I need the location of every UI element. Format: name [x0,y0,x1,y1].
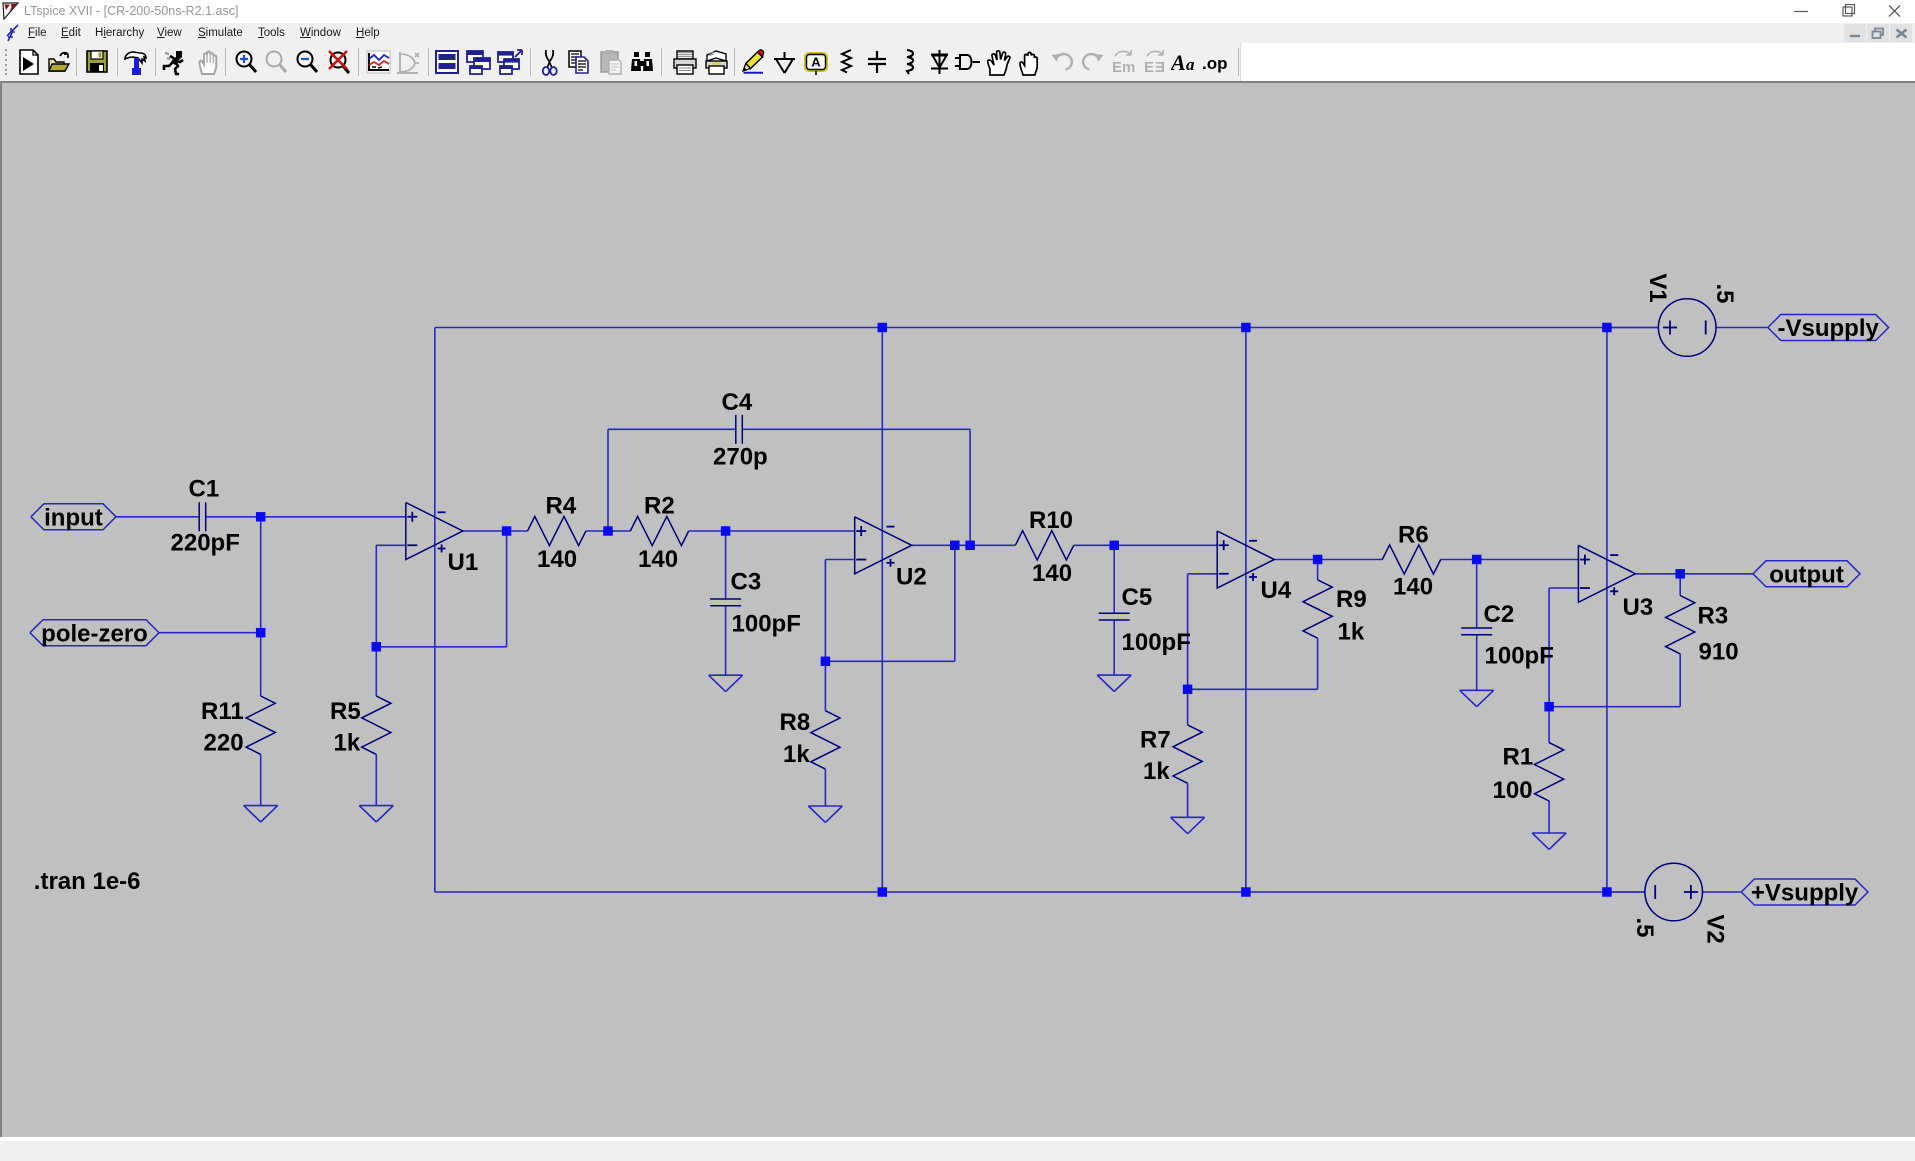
wire U2 power column [881,328,883,893]
resistor R4 [528,493,586,574]
toolbar icon hand1 [986,49,1013,76]
toolbar icon ground [772,49,797,76]
toolbar icon fft [394,49,421,76]
window controls [1786,0,1915,23]
status bar [0,1140,1915,1161]
ground R5 [359,806,393,822]
svg-text:.op: .op [1202,54,1228,73]
svg-text:.tran 1e-6: .tran 1e-6 [34,868,141,895]
svg-text:R3: R3 [1698,603,1729,630]
wire C3 branch [725,531,727,675]
resistor R11 [201,633,275,806]
capacitor C4 [713,389,768,471]
svg-text:output: output [1769,561,1844,588]
toolbar icon undo [1050,49,1074,76]
svg-text:E: E [1112,59,1122,76]
net flag pole-zero [30,620,159,648]
MDI child window controls [1844,23,1915,43]
resistor R3 [1666,574,1739,707]
svg-text:270p: 270p [713,444,768,471]
svg-text:R7: R7 [1140,727,1171,754]
svg-text:R1: R1 [1503,744,1534,771]
svg-text:R6: R6 [1398,522,1429,549]
svg-text:100pF: 100pF [1485,643,1554,670]
toolbar icon pencil [741,49,766,76]
toolbar icon op [1202,49,1230,76]
toolbar icon open [47,49,72,76]
svg-text:V2: V2 [1702,914,1729,943]
toolbar icon hammer [123,49,148,76]
wire V1 leads [1607,327,1768,329]
voltage source V1 [1644,273,1738,356]
wire C1 to U1 noninverting input [206,516,406,518]
resistor R6 [1382,522,1440,601]
wire U3 power column [1606,328,1608,893]
svg-text:140: 140 [537,546,577,573]
toolbar icon save [85,49,109,75]
resistor R5 [330,647,391,806]
svg-text:1k: 1k [1143,758,1170,785]
capacitor C1 [171,476,240,557]
svg-text:A: A [1171,50,1186,75]
wire R2 to U2 noninverting input [689,530,855,532]
toolbar icon preview [703,49,730,76]
ground C3 [709,675,743,691]
toolbar icon capacitor [866,49,888,76]
capacitor C5 [1099,584,1191,656]
resistor R1 [1493,707,1564,833]
capacitor C3 [710,569,801,638]
wire U2 output to R10 [912,544,1016,546]
svg-text:U2: U2 [896,564,927,591]
svg-text:R8: R8 [780,709,811,736]
svg-text:1k: 1k [334,730,361,757]
svg-text:100: 100 [1493,777,1533,804]
capacitor C2 [1461,601,1554,670]
net flag output [1753,561,1860,589]
wire U1 output to R4 [463,530,528,532]
wire pole-zero flag to node A [159,632,261,634]
svg-text:.5: .5 [1711,283,1738,303]
svg-text:100pF: 100pF [732,611,801,638]
svg-text:.5: .5 [1631,917,1658,937]
wire U1 feedback [376,531,506,647]
resistor R7 [1140,689,1202,817]
wire U4 feedback [1188,574,1318,690]
wire U1 power column [434,328,436,893]
toolbar icon paste [599,49,623,76]
resistor R8 [780,661,841,806]
wire bottom +Vsupply rail [435,891,1645,893]
svg-text:910: 910 [1699,639,1739,666]
svg-text:E: E [1144,59,1154,76]
toolbar icon find [629,49,655,76]
wire node A column [260,517,262,633]
wire U3 feedback [1549,588,1680,707]
toolbar icon run [162,49,188,76]
ground C5 [1097,675,1131,691]
toolbar icon zoomout [295,49,320,76]
toolbar icon diode [928,49,951,76]
svg-text:+Vsupply: +Vsupply [1751,880,1859,907]
svg-text:U1: U1 [448,549,479,576]
wire U4 output to R6 [1274,559,1382,561]
wire C4 top branch [608,429,970,545]
svg-text:R11: R11 [201,698,244,725]
toolbar icon label [803,49,829,76]
schematic document icon [5,24,21,42]
toolbar icon new [17,49,41,76]
svg-text:input: input [44,504,103,531]
wire input to C1 [116,516,199,518]
svg-text:A: A [811,55,821,70]
svg-text:140: 140 [638,546,678,573]
voltage source V2 [1631,863,1729,943]
svg-text:R9: R9 [1336,586,1367,613]
resistor R10 [1015,507,1073,587]
toolbar icon zoomin [234,49,259,76]
window title bar [0,0,1915,23]
ground R1 [1532,833,1566,849]
svg-text:140: 140 [1032,560,1072,587]
net flag -Vsupply [1768,315,1889,343]
toolbar icon zoomext [326,49,352,76]
svg-text:220: 220 [204,730,244,757]
net flag +Vsupply [1741,879,1868,907]
toolbar icon text [1171,49,1197,76]
toolbar icon tile [496,49,523,75]
toolbar icon print [672,49,698,76]
svg-text:m: m [1122,59,1135,76]
op-amp U3 [1578,545,1653,621]
svg-text:C1: C1 [189,476,220,503]
toolbar icon mirror [1111,49,1135,76]
wire R4 to R2 [586,530,630,532]
svg-text:R5: R5 [330,698,361,725]
svg-text:220pF: 220pF [171,530,240,557]
wire U3 output to output flag [1635,573,1753,575]
toolbar icon hand2 [1017,49,1041,76]
ground C2 [1460,690,1494,706]
LTspice application logo [2,2,20,20]
wire top -Vsupply rail [435,327,1659,329]
toolbar icon rotate [1143,49,1167,76]
svg-text:E: E [1155,59,1165,76]
svg-text:a: a [1186,55,1195,74]
svg-text:C5: C5 [1122,584,1153,611]
resistor R9 [1303,560,1367,690]
svg-text:V1: V1 [1644,273,1671,302]
svg-text:R4: R4 [546,493,577,520]
svg-text:U3: U3 [1623,594,1654,621]
op-amp U2 [855,517,927,591]
toolbar icon wave [365,49,392,76]
toolbar icon zoomback [264,49,288,76]
svg-text:100pF: 100pF [1122,629,1191,656]
svg-text:pole-zero: pole-zero [41,620,148,647]
toolbar icon halt [196,49,220,76]
wire U4 power column [1245,328,1247,893]
menu bar [0,23,1915,43]
wire junction dots [256,323,1685,897]
net flag input [31,504,116,532]
svg-text:R2: R2 [644,493,675,520]
svg-text:C4: C4 [722,389,753,416]
svg-text:R10: R10 [1029,507,1073,534]
toolbar icon bars [434,49,460,75]
svg-text:1k: 1k [1338,619,1365,646]
wire R6 to U3 noninverting input [1441,559,1579,561]
svg-text:U4: U4 [1261,577,1292,604]
op-amp U4 [1217,531,1292,604]
toolbar icon resistor [837,49,857,76]
svg-text:C3: C3 [731,569,762,596]
ground R8 [808,806,842,822]
svg-text:-Vsupply: -Vsupply [1778,315,1880,342]
ground R7 [1171,817,1205,833]
op-amp U1 [406,503,478,577]
svg-text:C2: C2 [1484,601,1515,628]
toolbar [0,43,1915,81]
toolbar icon cut [542,49,558,76]
wire V2 leads [1607,891,1741,893]
toolbar icon cascade [465,49,492,75]
svg-text:1k: 1k [783,741,810,768]
toolbar icon inductor [897,49,919,76]
ground R11 [244,806,278,822]
wire C2 branch [1476,560,1478,691]
resistor R2 [630,493,688,574]
wire R10 to U4 noninverting input [1074,544,1218,546]
toolbar icon copy [567,49,593,76]
wire U2 feedback [825,545,954,661]
svg-text:140: 140 [1393,574,1433,601]
toolbar icon redo [1081,49,1105,76]
spice directive .tran [34,868,141,895]
toolbar icon gate [954,49,982,76]
wire C5 branch [1113,545,1115,675]
